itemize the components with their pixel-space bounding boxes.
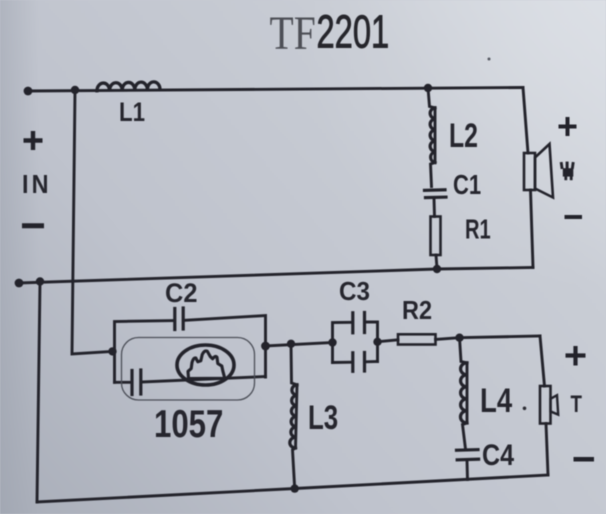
capacitor C4: [457, 450, 479, 480]
svg-text:C2: C2: [165, 277, 197, 308]
speck near L4: [523, 407, 527, 411]
component body outline 1057: [122, 338, 255, 401]
wire C3 to R2: [378, 340, 399, 342]
node C3 right: [373, 338, 381, 346]
svg-text:L2: L2: [449, 117, 478, 155]
wire block bottom branch: [143, 377, 266, 383]
wire block output to C3: [266, 343, 333, 347]
node L3 bottom: [291, 484, 299, 492]
wire bottom rail: [37, 475, 548, 502]
lamp bulb ellipse 1057: [177, 345, 234, 385]
label input minus sign: [22, 223, 44, 228]
inductor L4: [460, 338, 468, 449]
wire block top branch right + right riser: [185, 316, 266, 378]
wire block bottom stub left: [115, 381, 131, 384]
speaker T (tweeter): [540, 386, 558, 424]
wire right edge upper (speaker - lead): [531, 190, 534, 268]
capacitor C2: [175, 308, 183, 330]
node junction mid-left: [36, 277, 44, 285]
lamp filament crown: [188, 351, 225, 379]
node 1057 block right: [261, 342, 270, 351]
svg-text:2201: 2201: [317, 7, 390, 58]
wire tweeter feed: [460, 336, 541, 338]
wire IN+ feed drop to lower section: [72, 90, 113, 354]
label woofer minus sign: [565, 215, 583, 219]
node 1057 block left: [108, 347, 116, 355]
wire right edge lower (tweeter - lead): [546, 424, 548, 476]
wire right edge upper (speaker + lead): [523, 88, 528, 154]
svg-text:R1: R1: [465, 215, 491, 246]
svg-text:C4: C4: [482, 438, 515, 471]
svg-text:L3: L3: [308, 400, 338, 437]
capacitor pair C3: [333, 313, 378, 372]
inductor L1: [97, 82, 160, 91]
wire mid rail (woofer return): [19, 268, 533, 284]
capacitor C1: [425, 190, 447, 217]
label tweeter minus sign: [574, 457, 595, 462]
capacitor inside 1057 block: [132, 370, 141, 395]
svg-text:R2: R2: [402, 297, 432, 325]
wire R2 to node: [436, 338, 460, 340]
label input plus sign: [24, 131, 43, 150]
node input minus terminal: [15, 279, 24, 288]
resistor R1: [431, 217, 441, 269]
node C3 left: [328, 338, 336, 346]
resistor R2: [398, 334, 436, 344]
wire block left riser: [115, 321, 174, 383]
title TF2201: [270, 6, 390, 59]
inductor L2: [428, 88, 435, 187]
node L3 tap: [287, 340, 295, 348]
node input plus terminal: [24, 87, 33, 96]
node R1 branch bottom: [433, 265, 441, 273]
svg-text:C3: C3: [339, 277, 370, 306]
node R2 output: [455, 334, 463, 342]
svg-text:C1: C1: [453, 170, 481, 201]
node junction top-left: [71, 86, 79, 94]
wire right edge lower (tweeter + lead): [540, 336, 545, 386]
speaker W (woofer): [524, 144, 553, 198]
svg-text:L4: L4: [480, 381, 513, 419]
svg-text:IN: IN: [22, 171, 52, 199]
wire left edge lower loop: [37, 282, 40, 503]
label woofer plus sign: [559, 117, 577, 136]
inductor L3: [290, 344, 297, 489]
wire top rail: [28, 88, 523, 92]
svg-text:1057: 1057: [154, 403, 223, 446]
svg-text:L1: L1: [119, 98, 145, 127]
svg-text:T: T: [571, 391, 582, 418]
svg-text:TF: TF: [270, 6, 316, 59]
speck top right: [488, 58, 491, 61]
label woofer W: [560, 162, 575, 181]
node L2 branch top: [424, 84, 432, 92]
label tweeter plus sign: [566, 346, 586, 366]
